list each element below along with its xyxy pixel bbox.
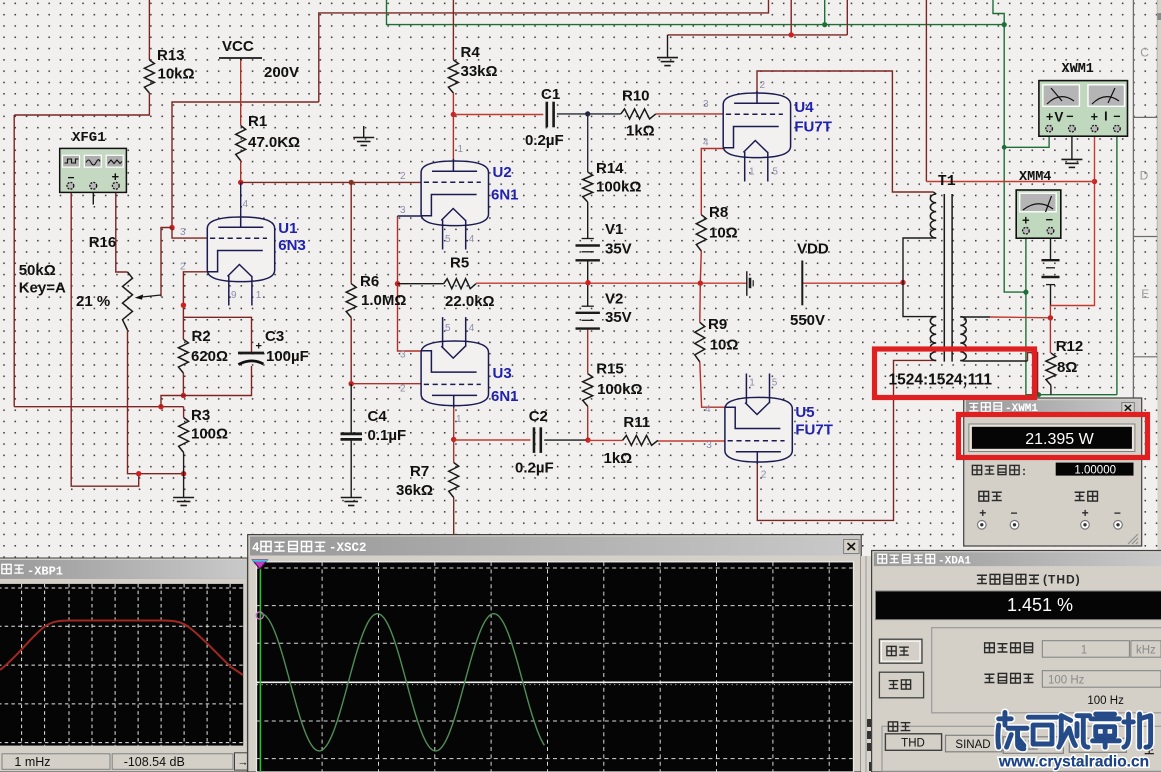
- svg-text:5: 5: [772, 167, 778, 178]
- svg-text:0.1µF: 0.1µF: [368, 427, 407, 444]
- svg-text:1: 1: [749, 378, 755, 389]
- wire: secondary bottom jog down: [1028, 353, 1038, 395]
- canvas scrollbar sliver: [1157, 0, 1161, 550]
- XSC2 centre axis: [257, 681, 853, 683]
- svg-text:2: 2: [180, 262, 186, 273]
- svg-text:1524:1524;111: 1524:1524;111: [889, 372, 993, 389]
- node: T1 centre tap: [900, 280, 905, 285]
- XWM1 resize grip: [1128, 534, 1138, 544]
- svg-text:2: 2: [760, 80, 766, 91]
- svg-text:10Ω: 10Ω: [710, 337, 739, 354]
- svg-text:10kΩ: 10kΩ: [158, 66, 195, 83]
- svg-text:4: 4: [469, 234, 475, 245]
- wire: C2 to R15 node: [544, 439, 588, 441]
- instrument window: wattmeter XWM1: [964, 398, 1142, 546]
- wire: XFG1 plus to pot: [116, 192, 128, 272]
- watermark crystalradio: [998, 713, 1151, 749]
- node: pot/XFG junction: [136, 471, 141, 476]
- wire: rail to R3 top: [14, 406, 183, 408]
- XDA1 fundamental freq row: [985, 643, 995, 653]
- svg-text:THD: THD: [901, 737, 925, 749]
- capacitor C1: [547, 102, 554, 128]
- wire: green down right side: [1004, 25, 1026, 293]
- wire: R2 top from U1 cathode: [183, 272, 207, 340]
- wire: R14 to V1: [587, 202, 589, 239]
- svg-text:R12: R12: [1056, 338, 1084, 355]
- wire: T1 secondary bottom lead: [963, 360, 1028, 362]
- svg-text:kHz: kHz: [1136, 645, 1156, 657]
- wire: battery to XWM1 I+: [1051, 182, 1095, 306]
- svg-text:R1: R1: [248, 113, 267, 130]
- svg-text:0.2µF: 0.2µF: [525, 132, 564, 149]
- svg-text:C4: C4: [368, 408, 388, 425]
- border row separator E/F: [1133, 356, 1161, 358]
- svg-text:+: +: [256, 341, 262, 353]
- wire: C1 to blue node: [557, 113, 588, 115]
- svg-text:1: 1: [256, 290, 262, 301]
- resistor R15: [583, 374, 593, 407]
- XSC2 trigger marker: [252, 560, 267, 569]
- svg-text:9: 9: [231, 290, 237, 301]
- svg-text:I: I: [1104, 110, 1107, 124]
- wire: R9 bottom to U5 pin4: [700, 362, 725, 407]
- wire: R13 bottom to left rail: [14, 93, 149, 115]
- wire: junction step to rail: [161, 396, 183, 407]
- wire: green down to R12 net: [1026, 292, 1117, 395]
- wire: R11 to U5 pin3: [658, 440, 725, 442]
- svg-text:3: 3: [703, 99, 709, 110]
- XDA1 title: [878, 554, 887, 563]
- node: R6 top junction: [349, 180, 354, 185]
- svg-text:R16: R16: [89, 234, 117, 251]
- resistor R5: [444, 279, 476, 289]
- XBP1 response curve: [0, 621, 243, 676]
- battery on plate bus: [747, 271, 753, 296]
- svg-text:21.395 W: 21.395 W: [1025, 431, 1094, 448]
- wire: down to U3 pin3: [398, 284, 422, 351]
- wire: T1 centre tap leads: [903, 238, 934, 317]
- svg-text:R5: R5: [450, 255, 469, 272]
- node: R3 bottom junction: [181, 471, 186, 476]
- node: C1/R4/U2 junction: [451, 112, 456, 117]
- XDA1 SINAD button: [946, 735, 1002, 752]
- svg-text:1: 1: [749, 167, 755, 178]
- svg-text:3: 3: [180, 227, 186, 238]
- wire: corner up to edge: [846, 0, 848, 35]
- svg-text:4: 4: [469, 323, 475, 334]
- svg-text:1: 1: [456, 414, 462, 425]
- battery V1: [576, 239, 600, 261]
- sheet border band: [1132, 0, 1134, 398]
- svg-text:100µF: 100µF: [266, 348, 309, 365]
- XBP1 title: [2, 564, 11, 573]
- svg-text:3: 3: [400, 350, 406, 361]
- svg-text:100kΩ: 100kΩ: [597, 381, 642, 398]
- wire: V1 to bus: [587, 261, 589, 283]
- svg-text:R10: R10: [622, 88, 650, 105]
- wire: pot bottom down: [128, 330, 184, 474]
- wire: top maroon horizontal: [319, 0, 769, 102]
- node: C4/U3 grid junction: [349, 381, 354, 386]
- node: R8/R9 junction: [698, 281, 703, 286]
- svg-text:R8: R8: [709, 204, 728, 221]
- border row separator D/E: [1133, 236, 1157, 238]
- XDA1 controls groupbox: [882, 726, 1161, 771]
- wire: XWM1 V- ground lead: [1071, 131, 1073, 159]
- instrument window: Bode plotter XBP1: [0, 558, 247, 772]
- svg-text:SINAD: SINAD: [955, 739, 990, 751]
- svg-text:1kΩ: 1kΩ: [604, 450, 633, 467]
- wire: to U1 grid column: [172, 102, 319, 228]
- XWM1 window title: [969, 403, 978, 411]
- svg-text:2: 2: [400, 384, 406, 395]
- svg-text:-XSC2: -XSC2: [329, 541, 367, 555]
- red annotation box power readout: [959, 415, 1148, 458]
- wire: XWM1 I- down: [1116, 131, 1118, 395]
- wire: R5 left lead: [398, 283, 444, 285]
- XSC2 channel marker: [256, 612, 263, 619]
- wire: XMM4 plus lead: [1025, 236, 1027, 292]
- transformer T1: [930, 192, 966, 362]
- node: U3 plate junction: [451, 437, 456, 442]
- svg-text:4: 4: [703, 138, 709, 149]
- svg-text:R4: R4: [461, 44, 481, 61]
- XDA1 settings button: [1003, 737, 1063, 754]
- wire: T1 net vertical: [925, 0, 927, 182]
- svg-text:100kΩ: 100kΩ: [596, 178, 641, 195]
- wire: green measurement bus: [387, 0, 1005, 25]
- svg-text:www.crystalradio.cn: www.crystalradio.cn: [998, 754, 1149, 771]
- svg-text:100 Hz: 100 Hz: [1087, 695, 1124, 707]
- red annotation box 1524 ratio: [875, 349, 1035, 398]
- wire: R12 bottom lead: [1050, 385, 1052, 394]
- resistor R2: [178, 339, 188, 373]
- power VDD 550V: [801, 261, 803, 306]
- svg-text:Key=A: Key=A: [19, 280, 66, 297]
- wire: node to C2: [454, 439, 531, 441]
- ground: C4 net: [341, 498, 362, 506]
- vacuum tube U5 FU7T: [725, 374, 793, 465]
- wire: node to C1: [453, 114, 543, 116]
- battery V2: [576, 306, 600, 328]
- svg-text:+: +: [112, 169, 120, 184]
- svg-text:100 Hz: 100 Hz: [1048, 674, 1085, 686]
- node: XWM1 I+ junction: [1092, 179, 1097, 184]
- XDA1 group panel: [932, 628, 1161, 713]
- svg-text:−: −: [1113, 110, 1120, 124]
- svg-text:U2: U2: [493, 164, 512, 181]
- wire: T1 secondary top lead: [963, 316, 990, 318]
- vacuum tube U1 6N3: [207, 215, 275, 306]
- node: rail/R2 junction: [158, 404, 163, 409]
- svg-text:U3: U3: [493, 365, 512, 382]
- wire: V2 to R15: [587, 329, 589, 374]
- power VCC: [219, 38, 262, 60]
- battery under XMM4: [1041, 260, 1059, 284]
- wire: T1 net to meters: [926, 181, 1094, 183]
- XWM1 radio buttons: [978, 521, 987, 530]
- wiper arrow: [142, 295, 161, 297]
- node: U1 plate junction: [238, 180, 243, 185]
- wire: C4 stem: [350, 384, 352, 434]
- ground: R3 net: [173, 474, 194, 506]
- svg-text:+: +: [1091, 110, 1098, 124]
- wire: C3 bottom rail: [183, 366, 251, 396]
- vacuum tube U4 FU7T: [723, 91, 791, 182]
- XWM1 voltage/current labels: [979, 491, 989, 501]
- wire: XFG1 minus long wire: [71, 192, 139, 486]
- svg-text:U4: U4: [794, 99, 814, 116]
- svg-text:−: −: [1011, 506, 1018, 520]
- svg-text:620Ω: 620Ω: [191, 348, 228, 365]
- svg-text:47.0KΩ: 47.0KΩ: [248, 134, 300, 151]
- svg-text:1kΩ: 1kΩ: [626, 123, 655, 140]
- svg-text::: :: [1022, 464, 1026, 478]
- node: R12 bottom green junction: [1036, 392, 1041, 397]
- instrument window: oscilloscope XSC2: [248, 535, 862, 772]
- wire: wiper to junction: [161, 228, 172, 297]
- svg-text:+: +: [1022, 213, 1030, 228]
- node: green V+ tee: [1002, 145, 1007, 150]
- wire: R3 column: [183, 407, 185, 418]
- wire: R7 top: [453, 440, 455, 463]
- svg-text:1.00000: 1.00000: [1074, 464, 1116, 476]
- node: R12 top junction: [1048, 315, 1053, 320]
- wire: green to XWM1 V+: [1004, 131, 1049, 147]
- wire: R7 bottom behind scope: [453, 498, 455, 536]
- border row separator C/D: [1133, 116, 1157, 118]
- XSC2 cursor line: [259, 562, 261, 772]
- svg-text:R3: R3: [191, 407, 210, 424]
- svg-text:R6: R6: [360, 273, 379, 290]
- wire: R9 top: [699, 283, 702, 322]
- svg-text:8Ω: 8Ω: [1057, 359, 1077, 376]
- wire: R8 bottom to bus: [700, 251, 701, 283]
- XDA1 clipped char: [1145, 746, 1154, 754]
- XBP1 plot: [0, 584, 243, 746]
- svg-text:3: 3: [400, 205, 406, 216]
- ground: floating mid: [353, 126, 374, 146]
- resistor R7: [449, 463, 459, 498]
- wire: R2/C3 top rail: [183, 317, 251, 352]
- resistor R6: [346, 284, 356, 318]
- wire: R4 top feed: [452, 0, 454, 60]
- XBP1 status bar: [0, 751, 246, 771]
- wire: secondary top to junction: [990, 316, 1050, 319]
- wire: stub up at 791: [790, 0, 792, 35]
- node: XMM4 plus junction: [1023, 290, 1028, 295]
- svg-text:FU7T: FU7T: [795, 422, 833, 439]
- svg-text:1.451 %: 1.451 %: [1007, 595, 1073, 615]
- svg-text:2: 2: [400, 171, 406, 182]
- svg-text:50kΩ: 50kΩ: [19, 262, 56, 279]
- svg-text:V: V: [1054, 110, 1063, 125]
- XDA1 THD button: [885, 734, 941, 751]
- vacuum tube U3 6N1: [421, 317, 489, 408]
- node: C1/R10/R14 junction (navy): [585, 111, 590, 116]
- capacitor C4: [341, 434, 363, 440]
- wire: U2 pin3 horizontal: [398, 215, 422, 217]
- svg-text:+: +: [1082, 506, 1089, 520]
- potentiometer R16: [123, 272, 133, 330]
- wire: bus to V2: [587, 283, 589, 307]
- resistor R9: [695, 322, 705, 362]
- svg-text:XFG1: XFG1: [72, 130, 106, 146]
- svg-text:-XDA1: -XDA1: [938, 556, 971, 568]
- node: green stub junction: [822, 22, 827, 27]
- clipped window sliver: [861, 556, 872, 772]
- svg-text:XMM4: XMM4: [1019, 170, 1051, 185]
- wattmeter icon XWM1: [1039, 81, 1128, 137]
- capacitor C3 (polarized): [238, 341, 264, 365]
- wire: R3 bottom to ground: [183, 453, 185, 474]
- svg-text:(THD): (THD): [1043, 573, 1081, 587]
- node: R5 left junction: [395, 281, 400, 286]
- wire: node to R10: [588, 113, 621, 115]
- resistor R8: [696, 215, 706, 251]
- XDA1 stop button: [879, 672, 923, 698]
- svg-text:R2: R2: [192, 328, 211, 345]
- svg-text:1: 1: [1081, 645, 1087, 657]
- wire: R1 feed from VCC: [240, 60, 242, 126]
- node: wiper junction: [169, 225, 174, 230]
- svg-text:−: −: [1066, 110, 1073, 124]
- svg-text:V1: V1: [605, 221, 623, 238]
- svg-text:→: →: [238, 757, 249, 769]
- instrument window: distortion analyzer XDA1: [872, 551, 1161, 772]
- node: R15 bottom junction: [585, 437, 590, 442]
- wire: XMM4 minus to battery: [1050, 238, 1052, 260]
- svg-text:100Ω: 100Ω: [191, 426, 228, 443]
- node: R2 bottom junction: [181, 393, 186, 398]
- svg-text:+: +: [1046, 110, 1053, 124]
- svg-text:C3: C3: [265, 328, 284, 345]
- svg-text:C: C: [1140, 46, 1149, 60]
- node: cathode junction: [181, 303, 186, 308]
- resistor R13: [144, 60, 154, 93]
- XWM1 power display: [969, 424, 1135, 452]
- wire: junction to U1 pin3: [172, 228, 207, 239]
- wire: top-left feed to R13: [148, 0, 150, 60]
- wire: U1 plate to U2 grid: [241, 181, 421, 183]
- svg-text:+: +: [979, 506, 986, 520]
- svg-text:R9: R9: [708, 316, 727, 333]
- XWM1 close button: [1122, 403, 1135, 414]
- wire: U5 pin2 to T1 primary bottom: [757, 360, 933, 520]
- wire: C4 to ground: [350, 440, 352, 498]
- node: V1/V2 junction: [585, 280, 590, 285]
- XDA1 THD display: [876, 591, 1161, 620]
- wire: R6 bottom to C4 node: [350, 318, 352, 384]
- svg-text:200V: 200V: [264, 64, 299, 81]
- wire: ground feed horizontal: [668, 34, 848, 36]
- wire: U3 plate to C2 node: [453, 396, 455, 440]
- svg-text:−: −: [1114, 506, 1121, 520]
- svg-text:35V: 35V: [605, 309, 632, 326]
- svg-text:E: E: [1141, 287, 1149, 301]
- svg-text:22.0kΩ: 22.0kΩ: [445, 293, 495, 310]
- wire: R4 bottom to node: [452, 93, 454, 115]
- wire: R2 bottom: [182, 373, 184, 396]
- vacuum tube U2 6N1: [421, 159, 489, 250]
- svg-text:2: 2: [761, 470, 767, 481]
- node: green corner junction: [1002, 22, 1007, 27]
- svg-text:33kΩ: 33kΩ: [461, 63, 498, 80]
- svg-text:6N3: 6N3: [278, 237, 306, 254]
- svg-text:1: 1: [458, 144, 464, 155]
- XSC2 plot area: [257, 562, 854, 772]
- function generator XFG1: [60, 148, 127, 192]
- wire: U2 pin1 drop: [452, 115, 454, 172]
- svg-text:35V: 35V: [605, 241, 632, 258]
- svg-text:XWM1: XWM1: [1062, 62, 1094, 77]
- resistor R1: [236, 126, 246, 161]
- svg-text:−: −: [1046, 212, 1054, 227]
- wire: to U3 pin2: [351, 383, 421, 385]
- svg-text:6N1: 6N1: [491, 388, 519, 405]
- resistor R12: [1046, 353, 1056, 385]
- svg-text:R14: R14: [596, 160, 624, 177]
- wire: battery down: [1050, 285, 1052, 306]
- wire: U4 pin2 to T1 primary top: [757, 71, 934, 192]
- svg-text:36kΩ: 36kΩ: [396, 482, 433, 499]
- svg-text:6N1: 6N1: [491, 187, 519, 204]
- svg-text:550V: 550V: [790, 312, 825, 329]
- svg-text:R11: R11: [623, 414, 650, 431]
- wire: XFG1 common stub: [92, 192, 94, 204]
- wire: R1 bottom to node: [240, 161, 242, 183]
- svg-text:5: 5: [772, 378, 778, 389]
- XDA1 resolution freq row: [984, 674, 994, 682]
- XSC2 close button: [844, 540, 860, 554]
- svg-text:4: 4: [252, 541, 260, 555]
- wire: R8 top from U4 pin4: [701, 149, 723, 215]
- wire: green jog from top: [993, 0, 1004, 25]
- multimeter icon XMM4: [1016, 190, 1061, 238]
- svg-text:4: 4: [705, 404, 711, 415]
- wire: plate supply bus: [476, 282, 747, 284]
- svg-text:VDD: VDD: [797, 241, 829, 258]
- wire: U1 pin4: [240, 182, 242, 227]
- wire: R6 top column: [350, 182, 352, 283]
- node: stub junction: [789, 32, 794, 37]
- svg-text:0.2µF: 0.2µF: [515, 460, 554, 477]
- svg-text:C2: C2: [529, 408, 548, 425]
- wire: R15 to C2 node: [587, 406, 589, 440]
- svg-text:21 %: 21 %: [76, 293, 110, 310]
- svg-text:3: 3: [706, 440, 712, 451]
- svg-text:5: 5: [445, 323, 451, 334]
- svg-text:5: 5: [445, 234, 451, 245]
- svg-text:D: D: [1140, 169, 1149, 183]
- svg-text:-XBP1: -XBP1: [27, 565, 63, 579]
- capacitor C2: [534, 427, 541, 453]
- svg-text:T1: T1: [938, 173, 956, 190]
- resistor R10: [621, 109, 656, 119]
- wire: XWM1 I+ lead: [1094, 131, 1096, 182]
- wire: U2 pin3 column: [397, 216, 399, 284]
- wire: green stub up: [824, 0, 826, 25]
- resistor R11: [623, 435, 658, 445]
- ground: top feed: [657, 35, 678, 66]
- wire: R14 column: [587, 114, 589, 172]
- resistor R14: [583, 172, 593, 202]
- XDA1 start button: [879, 639, 922, 663]
- svg-text:C1: C1: [541, 86, 560, 103]
- svg-text:R15: R15: [596, 361, 624, 378]
- svg-text:VCC: VCC: [222, 38, 254, 55]
- XWM1 power factor row: [972, 465, 981, 474]
